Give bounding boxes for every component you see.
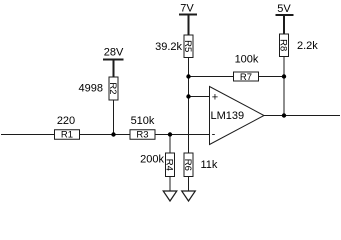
junction main node and R4 bbox=[168, 132, 172, 136]
svg-text:39.2k: 39.2k bbox=[155, 41, 182, 53]
svg-text:2.2k: 2.2k bbox=[297, 40, 318, 52]
wire 5V stub bbox=[283, 15, 285, 34]
svg-text:R4: R4 bbox=[164, 159, 175, 171]
op-amp U1 LM139 triangle bbox=[210, 87, 265, 145]
svg-text:7V: 7V bbox=[180, 3, 194, 15]
svg-text:R1: R1 bbox=[61, 130, 73, 141]
svg-text:100k: 100k bbox=[235, 54, 259, 66]
wire between R1 and R3 bbox=[80, 134, 131, 136]
junction main node and R2 bbox=[111, 132, 115, 136]
wire R2 bottom to main node bbox=[113, 100, 115, 135]
svg-text:28V: 28V bbox=[104, 47, 124, 59]
wire R5 bottom through node B down to R6 bbox=[188, 58, 190, 154]
power rail 5V bar bbox=[276, 14, 294, 16]
wire R8 bottom to output node bbox=[283, 57, 285, 116]
svg-text:510k: 510k bbox=[131, 115, 155, 127]
wire R6 bottom to ground bbox=[188, 177, 190, 192]
wire from R3 to inverting input bbox=[155, 134, 210, 136]
wire R4 bottom to ground bbox=[169, 177, 171, 192]
wire R7 right to output branch bbox=[259, 76, 285, 78]
svg-text:R3: R3 bbox=[136, 130, 148, 141]
svg-text:220: 220 bbox=[57, 115, 75, 127]
svg-text:-: - bbox=[212, 129, 216, 141]
svg-text:R5: R5 bbox=[182, 40, 193, 52]
svg-text:LM139: LM139 bbox=[211, 110, 245, 122]
junction node B and R7 bbox=[186, 74, 190, 78]
svg-text:11k: 11k bbox=[201, 159, 218, 171]
svg-text:+: + bbox=[212, 91, 218, 103]
svg-text:4998: 4998 bbox=[79, 83, 103, 95]
svg-text:R8: R8 bbox=[278, 39, 289, 51]
junction output and R8 bbox=[282, 113, 286, 117]
ground arrow under R4 bbox=[163, 191, 177, 201]
svg-text:R2: R2 bbox=[107, 82, 118, 94]
resistor R3 body bbox=[130, 130, 155, 140]
junction R8 and R7 bbox=[282, 74, 286, 78]
junction node B and non-inverting input bbox=[186, 94, 190, 98]
resistor R4 body bbox=[166, 153, 175, 177]
resistor R7 body bbox=[234, 72, 259, 81]
wire 7V stub bbox=[188, 15, 190, 36]
svg-text:5V: 5V bbox=[277, 3, 291, 15]
svg-text:R6: R6 bbox=[182, 159, 193, 171]
wire non-inverting input bbox=[189, 96, 210, 98]
resistor R8 body bbox=[280, 34, 289, 57]
wire node B to R7 left bbox=[189, 76, 234, 78]
power rail 7V bar bbox=[179, 14, 197, 16]
wire main input left segment bbox=[1, 134, 55, 136]
ground arrow under R6 bbox=[182, 191, 196, 201]
resistor R1 body bbox=[55, 130, 80, 140]
resistor R2 body bbox=[109, 77, 118, 100]
resistor R6 body bbox=[184, 153, 193, 177]
resistor R5 body bbox=[184, 35, 193, 58]
wire output bbox=[264, 115, 340, 117]
svg-text:R7: R7 bbox=[240, 72, 252, 83]
wire 28V stub bbox=[113, 60, 115, 78]
svg-text:200k: 200k bbox=[140, 154, 164, 166]
power rail 28V bar bbox=[103, 59, 124, 61]
wire main node to R4 top bbox=[169, 135, 171, 154]
